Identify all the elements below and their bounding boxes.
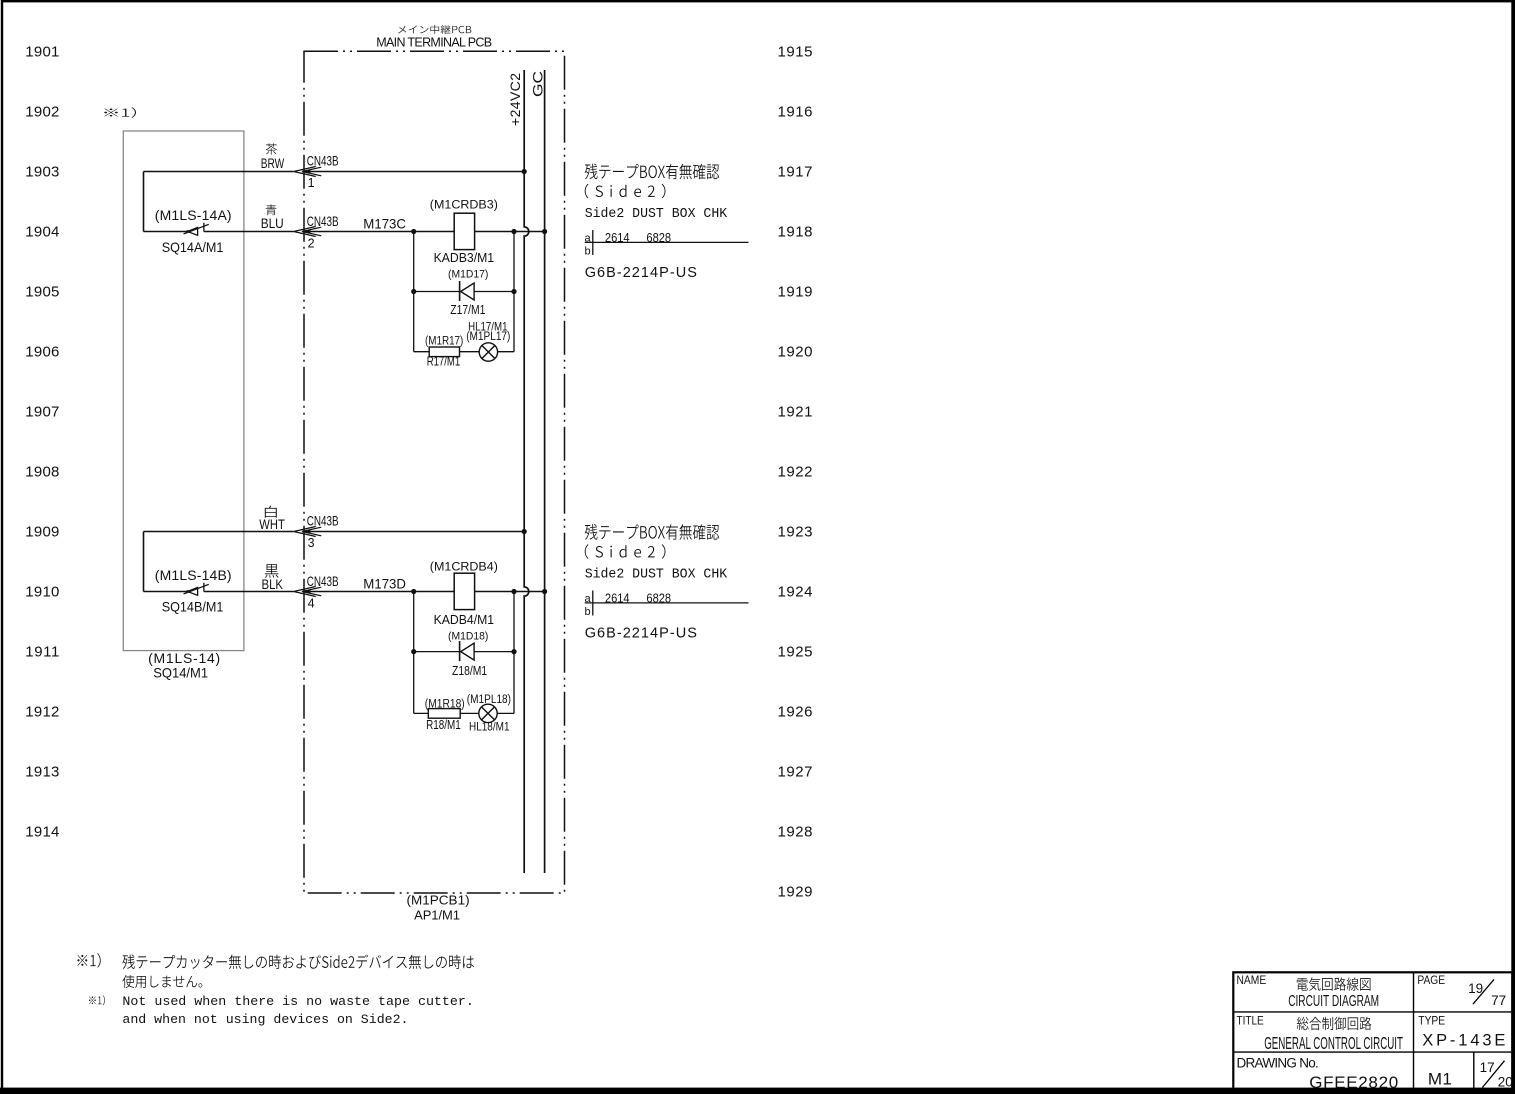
svg-text:1903: 1903	[25, 164, 59, 181]
wire color label blue kanji	[266, 205, 277, 216]
diode Z18/M1	[460, 641, 475, 661]
svg-text:Not used when there is no wast: Not used when there is no waste tape cut…	[122, 994, 474, 1009]
svg-text:1913: 1913	[25, 764, 59, 781]
svg-text:and when not using devices on: and when not using devices on Side2.	[122, 1012, 408, 1027]
net +24VC2 bus line with hops over wires	[524, 70, 529, 873]
svg-text:2: 2	[308, 236, 315, 250]
wire row 1909 inside PCB to +24VC2	[305, 531, 524, 533]
junction node right row 1910	[511, 589, 516, 594]
svg-text:PAGE: PAGE	[1417, 975, 1445, 987]
svg-text:TITLE: TITLE	[1237, 1015, 1264, 1027]
junction node right row 1904	[511, 229, 516, 234]
annotation block 1 contact divider line	[585, 230, 749, 255]
relay coil KADB4/M1	[454, 573, 474, 609]
svg-text:19: 19	[1468, 981, 1483, 996]
svg-text:6828: 6828	[646, 231, 671, 245]
svg-text:1904: 1904	[25, 224, 59, 241]
svg-text:GC: GC	[529, 71, 545, 97]
svg-text:1921: 1921	[778, 404, 813, 421]
svg-text:Side2 DUST BOX CHK: Side2 DUST BOX CHK	[585, 567, 728, 582]
svg-text:GENERAL CONTROL CIRCUIT: GENERAL CONTROL CIRCUIT	[1264, 1033, 1403, 1053]
title block name japanese	[1297, 977, 1371, 990]
svg-text:6828: 6828	[646, 591, 671, 605]
footnote japanese line 2	[122, 975, 202, 988]
lamp HL18/M1	[479, 704, 497, 722]
svg-text:1906: 1906	[25, 344, 59, 361]
svg-text:R18/M1: R18/M1	[426, 718, 461, 732]
title block row divider 1	[1233, 1011, 1512, 1013]
svg-text:1911: 1911	[25, 644, 59, 661]
junction node left row 1910	[411, 589, 416, 594]
wire color label white kanji	[265, 506, 277, 518]
annotation block 1 Side2 japanese	[585, 184, 666, 198]
svg-text:1902: 1902	[25, 104, 59, 121]
svg-text:20: 20	[1498, 1075, 1513, 1090]
svg-text:1929: 1929	[778, 884, 813, 901]
title block sheet slash	[1482, 1061, 1504, 1088]
svg-text:2614: 2614	[605, 231, 630, 245]
svg-text:(M1D17): (M1D17)	[448, 269, 488, 281]
svg-text:1919: 1919	[778, 284, 813, 301]
svg-text:1918: 1918	[778, 224, 813, 241]
svg-text:1925: 1925	[778, 644, 813, 661]
svg-text:1916: 1916	[778, 104, 813, 121]
connector CN43B pin 4	[294, 587, 322, 597]
wire row 1903 inside PCB to +24VC2	[305, 171, 524, 173]
svg-text:BLK: BLK	[262, 576, 284, 592]
wire vertical link switch box lower	[143, 532, 145, 592]
junction node right diode row 1911	[511, 649, 516, 654]
svg-text:G6B-2214P-US: G6B-2214P-US	[585, 625, 697, 641]
footnote japanese line 1	[122, 955, 474, 969]
footnote marker japanese	[77, 953, 100, 967]
footnote marker english	[89, 995, 105, 1005]
svg-text:2614: 2614	[605, 591, 630, 605]
svg-text:Z17/M1: Z17/M1	[450, 303, 485, 317]
svg-text:1: 1	[308, 176, 315, 190]
connector CN43B pin 1	[294, 167, 322, 177]
svg-text:KADB3/M1: KADB3/M1	[434, 250, 495, 265]
svg-text:17: 17	[1480, 1060, 1495, 1075]
svg-text:HL18/M1: HL18/M1	[469, 719, 510, 733]
svg-text:MAIN TERMINAL PCB: MAIN TERMINAL PCB	[376, 36, 492, 50]
title block outer box	[1233, 972, 1512, 1090]
wire diode row 1905	[414, 291, 514, 293]
svg-text:b: b	[585, 606, 591, 618]
svg-text:1917: 1917	[778, 164, 813, 181]
svg-text:G6B-2214P-US: G6B-2214P-US	[585, 265, 697, 281]
limit switch SQ14A/M1 contact	[184, 223, 209, 236]
junction node left diode row 1911	[411, 649, 416, 654]
svg-text:CIRCUIT DIAGRAM: CIRCUIT DIAGRAM	[1288, 993, 1379, 1010]
resistor R17/M1	[429, 347, 459, 357]
junction node left row 1904	[411, 229, 416, 234]
svg-text:(M1CRDB3): (M1CRDB3)	[430, 199, 498, 211]
svg-text:CN43B: CN43B	[307, 513, 339, 529]
junction on +24VC2 row 1909	[522, 529, 527, 534]
wire M173D row 1910	[305, 591, 545, 593]
svg-text:M173C: M173C	[363, 216, 406, 232]
svg-text:1923: 1923	[778, 524, 813, 541]
limit switch SQ14B/M1 contact	[184, 583, 209, 596]
wire color label brown kanji	[266, 143, 277, 154]
svg-text:NAME: NAME	[1237, 975, 1267, 987]
title block title japanese	[1297, 1017, 1372, 1030]
svg-text:(M1CRDB4): (M1CRDB4)	[430, 562, 498, 574]
svg-text:CN43B: CN43B	[307, 213, 339, 229]
svg-text:(M1R17): (M1R17)	[425, 336, 463, 348]
svg-text:+24VC2: +24VC2	[507, 73, 523, 126]
resistor R18/M1	[428, 709, 460, 719]
wire M173C row 1904	[305, 231, 545, 233]
svg-text:1912: 1912	[25, 704, 59, 721]
svg-text:TYPE: TYPE	[1418, 1015, 1445, 1027]
wire bottom row 1906	[414, 351, 514, 353]
annotation block 2 heading japanese	[585, 524, 720, 540]
svg-text:1907: 1907	[25, 404, 59, 421]
svg-text:1922: 1922	[778, 464, 813, 481]
svg-text:(M1PL17): (M1PL17)	[466, 331, 510, 343]
page frame right edge	[1512, 0, 1515, 1094]
page frame bottom thick edge	[0, 1088, 1515, 1094]
net GC bus line	[544, 70, 546, 873]
svg-text:(M1LS-14A): (M1LS-14A)	[155, 207, 232, 223]
svg-text:DRAWING No.: DRAWING No.	[1237, 1055, 1319, 1070]
svg-text:Side2 DUST BOX CHK: Side2 DUST BOX CHK	[585, 207, 728, 222]
svg-text:4: 4	[308, 596, 315, 610]
svg-text:1928: 1928	[778, 824, 813, 841]
title block row divider 2	[1233, 1051, 1512, 1053]
svg-text:GFEE2820: GFEE2820	[1309, 1073, 1398, 1092]
svg-text:1910: 1910	[25, 584, 59, 601]
wire right branch lower network	[513, 592, 515, 714]
wire left branch lower network	[413, 592, 415, 714]
svg-text:SQ14B/M1: SQ14B/M1	[162, 599, 224, 615]
svg-text:1901: 1901	[25, 44, 59, 61]
svg-text:CN43B: CN43B	[307, 153, 339, 169]
junction node on GC row 1910	[542, 589, 547, 594]
wire vertical link switch box upper	[143, 172, 145, 232]
svg-text:(M1D18): (M1D18)	[448, 631, 488, 643]
svg-text:1926: 1926	[778, 704, 813, 721]
svg-text:1909: 1909	[25, 524, 59, 541]
junction node left diode row 1905	[411, 289, 416, 294]
svg-text:Z18/M1: Z18/M1	[452, 664, 487, 678]
svg-text:(M1R18): (M1R18)	[425, 698, 465, 710]
lamp HL17/M1	[479, 343, 497, 361]
svg-text:(M1LS-14B): (M1LS-14B)	[155, 567, 232, 583]
svg-text:3: 3	[308, 536, 315, 550]
wire color label black kanji	[265, 564, 279, 578]
svg-text:M173D: M173D	[363, 576, 406, 592]
svg-text:1905: 1905	[25, 284, 59, 301]
annotation block 2 contact divider line	[585, 591, 749, 616]
svg-text:WHT: WHT	[259, 516, 285, 532]
svg-text:BLU: BLU	[261, 215, 284, 231]
svg-text:CN43B: CN43B	[307, 573, 339, 589]
svg-text:AP1/M1: AP1/M1	[414, 908, 460, 923]
annotation block 2 Side2 japanese	[585, 544, 666, 558]
svg-text:SQ14A/M1: SQ14A/M1	[162, 239, 224, 255]
annotation block 1 heading japanese	[585, 164, 720, 180]
diode Z17/M1	[460, 281, 475, 301]
relay coil KADB3/M1	[454, 213, 474, 249]
main terminal PCB boundary box (dash-dot-dot)	[304, 51, 565, 893]
wire BRW row 1903	[144, 171, 294, 173]
svg-text:SQ14/M1: SQ14/M1	[153, 665, 208, 681]
svg-text:R17/M1: R17/M1	[427, 354, 461, 368]
junction on +24VC2 row 1903	[522, 169, 527, 174]
svg-text:1914: 1914	[25, 824, 59, 841]
svg-text:1927: 1927	[778, 764, 813, 781]
svg-text:b: b	[585, 245, 591, 257]
junction node right diode row 1905	[511, 289, 516, 294]
junction node on GC row 1904	[542, 229, 547, 234]
PCB box title japanese	[398, 25, 471, 34]
svg-text:1915: 1915	[778, 44, 813, 61]
title block page slash	[1473, 979, 1494, 1004]
limit switch enclosure box M1LS-14	[123, 131, 244, 651]
wire BLK row 1910 from switch to connector	[144, 591, 294, 593]
wire BLU row 1904 from switch to connector	[144, 231, 294, 233]
wire right branch upper network	[513, 232, 515, 352]
svg-text:1908: 1908	[25, 464, 59, 481]
svg-text:(M1PL18): (M1PL18)	[467, 694, 511, 706]
svg-text:M1: M1	[1428, 1070, 1452, 1089]
svg-text:77: 77	[1491, 993, 1506, 1008]
wire diode row 1911	[414, 651, 514, 653]
connector CN43B pin 3	[294, 527, 322, 537]
svg-text:1920: 1920	[778, 344, 813, 361]
wire WHT row 1909	[144, 531, 294, 533]
title block row3 divider	[1473, 1052, 1475, 1090]
title block column divider	[1413, 972, 1415, 1090]
svg-text:1924: 1924	[778, 584, 813, 601]
svg-text:KADB4/M1: KADB4/M1	[434, 612, 495, 627]
connector CN43B pin 2	[294, 227, 322, 237]
wire left branch upper network	[413, 232, 415, 352]
svg-text:(M1PCB1): (M1PCB1)	[407, 893, 470, 908]
svg-text:BRW: BRW	[261, 155, 285, 171]
wire bottom row 1912	[414, 712, 514, 714]
note marker ref 1902	[104, 107, 136, 118]
